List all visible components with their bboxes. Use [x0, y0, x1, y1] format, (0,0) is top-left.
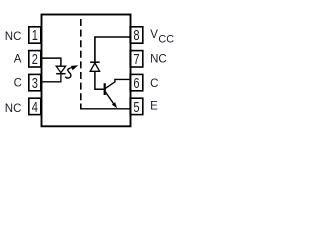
light emission arrowhead	[71, 65, 78, 70]
pin 1 box	[29, 27, 41, 43]
wire emitter to pin 5	[81, 108, 130, 110]
svg-text:8: 8	[133, 26, 139, 43]
transistor Q1 base bar	[104, 83, 106, 95]
transistor Q1 collector	[105, 79, 129, 88]
svg-text:C: C	[14, 77, 22, 89]
svg-text:3: 3	[32, 74, 38, 91]
svg-text:7: 7	[133, 50, 139, 67]
pin 8 box	[130, 27, 143, 43]
svg-text:4: 4	[32, 98, 38, 115]
pin 6 box	[130, 74, 143, 90]
svg-text:A: A	[14, 54, 22, 66]
svg-text:CC: CC	[158, 34, 174, 46]
light emission arrow squiggle	[65, 68, 72, 79]
photodiode triangle	[90, 63, 99, 71]
wire pin 2 to LED anode	[42, 58, 61, 66]
optical isolation dashed line last dash	[80, 104, 82, 110]
svg-text:C: C	[150, 78, 158, 90]
svg-text:NC: NC	[5, 31, 22, 43]
wire LED cathode to pin 3	[42, 74, 61, 81]
IC body U1	[42, 15, 131, 127]
LED D1 cathode bar	[56, 73, 65, 75]
pin 4 box	[29, 98, 41, 114]
pin 2 box	[29, 51, 41, 67]
svg-text:E: E	[150, 100, 158, 112]
optical isolation dashed line	[80, 19, 82, 101]
transistor Q1 emitter	[105, 92, 114, 104]
svg-text:6: 6	[133, 74, 139, 91]
wire photodiode anode to transistor base	[95, 71, 104, 89]
svg-text:5: 5	[133, 98, 139, 115]
svg-text:2: 2	[32, 50, 38, 67]
svg-text:1: 1	[32, 26, 38, 43]
photodiode cathode bar	[90, 61, 100, 63]
LED D1 triangle	[56, 66, 65, 73]
svg-text:NC: NC	[150, 54, 167, 66]
pin 3 box	[29, 74, 41, 90]
label VCC pin 8	[150, 29, 174, 46]
svg-text:NC: NC	[5, 103, 22, 115]
svg-text:V: V	[150, 29, 158, 41]
pin 7 box	[130, 51, 143, 67]
wire pin 8 VCC to photodiode cathode	[95, 37, 130, 62]
pin 5 box	[130, 98, 143, 114]
transistor Q1 emitter arrowhead	[112, 102, 117, 108]
